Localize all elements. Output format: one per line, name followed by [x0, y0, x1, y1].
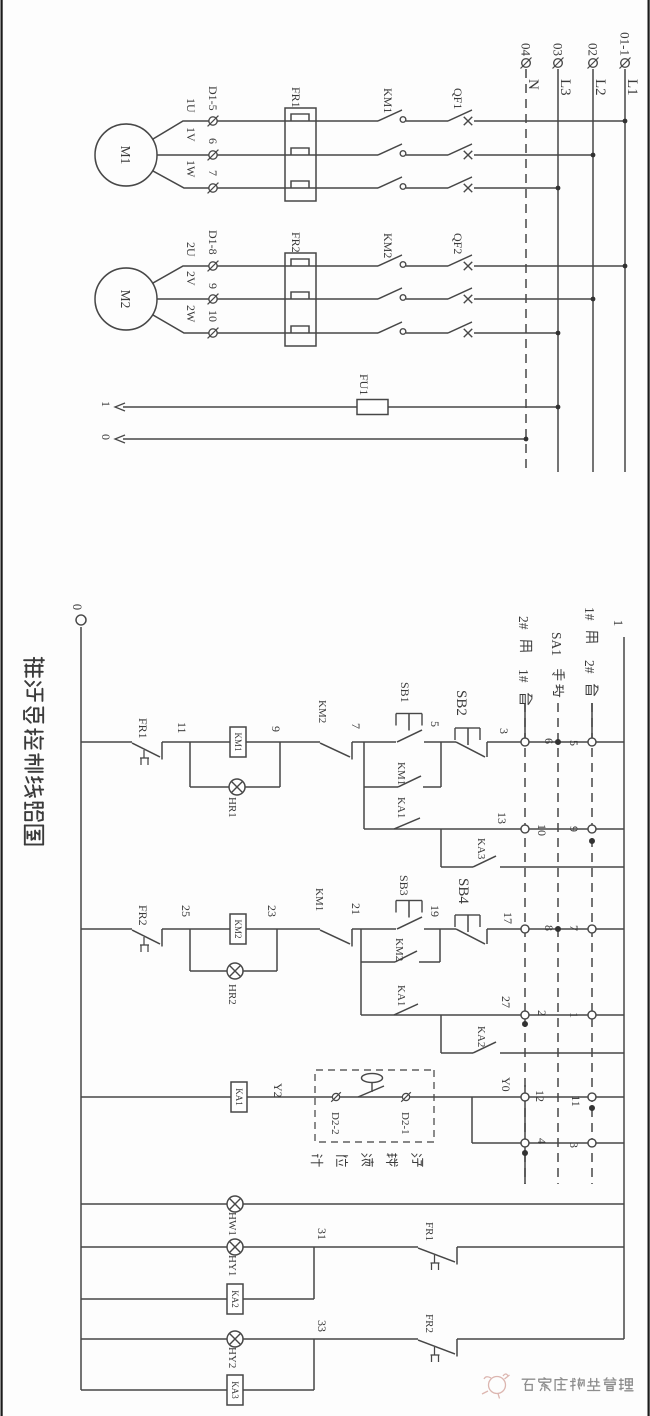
svg-text:9: 9: [269, 726, 283, 732]
svg-text:1: 1: [567, 1012, 581, 1018]
svg-text:9: 9: [206, 283, 220, 289]
bus L3: [557, 69, 559, 472]
svg-text:23: 23: [265, 905, 279, 917]
svg-text:KA2: KA2: [475, 1026, 487, 1047]
SA1 contact circle rung2 pos C: [588, 925, 596, 933]
svg-text:QF1: QF1: [451, 88, 465, 109]
svg-text:KM2: KM2: [316, 700, 328, 723]
rung 3 wire (KA1 float circuit): [81, 1096, 624, 1098]
float switch box (dashed): [315, 1070, 434, 1142]
wire 4 rung: [472, 1142, 624, 1144]
svg-text:D1-8: D1-8: [206, 230, 220, 255]
breaker QF2: [448, 259, 474, 273]
FR2 fault contact: [456, 1339, 458, 1357]
interlock KM1 NC: [351, 929, 353, 947]
svg-text:02: 02: [586, 43, 601, 56]
SA1 closed-contact dot rung1 pos B (manual): [555, 739, 561, 745]
svg-text:1#: 1#: [582, 607, 597, 621]
svg-text:03: 03: [551, 43, 566, 56]
motor terminals M1: [209, 117, 217, 125]
svg-text:2: 2: [535, 1010, 549, 1016]
svg-text:10: 10: [206, 310, 220, 322]
svg-text:2W: 2W: [184, 305, 198, 323]
float contact D2-2: [332, 1093, 339, 1100]
SA1 position line B (手动): [557, 703, 559, 1184]
SA1 closed-position dot pos A: [522, 1150, 528, 1156]
KA1 auto branch (wire 27): [361, 1014, 624, 1016]
svg-text:M2: M2: [118, 290, 133, 309]
svg-text:SB4: SB4: [455, 878, 471, 904]
svg-text:9: 9: [567, 826, 581, 832]
KA2 branch to bus 1: [440, 1015, 442, 1053]
svg-text:10: 10: [535, 824, 549, 836]
svg-text:21: 21: [349, 903, 363, 915]
watermark logo: [482, 1374, 510, 1399]
svg-text:HR2: HR2: [226, 984, 238, 1005]
rung HY1 / FR1 fault: [457, 1246, 624, 1248]
svg-text:11: 11: [175, 722, 189, 734]
svg-text:31: 31: [315, 1228, 329, 1240]
svg-text:KM1: KM1: [395, 762, 407, 785]
svg-text:33: 33: [315, 1320, 329, 1332]
SA1 contact circle wire27 pos C: [588, 1011, 596, 1019]
svg-text:27: 27: [499, 996, 513, 1008]
thermal overload FR2 heaters: [285, 253, 316, 346]
svg-text:1#: 1#: [516, 669, 531, 683]
svg-text:SB1: SB1: [398, 682, 412, 703]
stop button SB3: [397, 917, 422, 929]
SA1 contact circle rung2 pos A: [521, 925, 529, 933]
svg-text:6: 6: [542, 738, 556, 744]
svg-text:D2-1: D2-1: [399, 1112, 411, 1135]
fuse FU1 branch: [123, 406, 558, 408]
control bus 0 (bottom): [80, 627, 82, 1390]
svg-text:KM2: KM2: [381, 233, 395, 258]
rung HY2 / FR2 fault: [457, 1338, 624, 1340]
svg-text:D1-5: D1-5: [206, 86, 220, 111]
svg-text:KM1: KM1: [313, 888, 325, 911]
motor terminals M2: [209, 262, 217, 270]
svg-text:KM1: KM1: [381, 88, 395, 113]
svg-text:Y0: Y0: [499, 1077, 513, 1092]
motor M2 circle: [95, 268, 157, 330]
motor M1 lead wires: [157, 154, 209, 156]
svg-text:FR1: FR1: [423, 1222, 435, 1241]
SA1 closed-position dot pos C: [589, 838, 595, 844]
stop button SB1: [397, 730, 422, 742]
start button SB4: [486, 929, 488, 944]
contactor KM2 main contacts: [378, 259, 406, 273]
arrow line 1: [115, 403, 125, 411]
svg-text:5: 5: [428, 721, 442, 727]
KA3 branch to bus 1: [440, 829, 442, 867]
coil KA1: [231, 1082, 247, 1112]
watermark text 石家庄物业管理: [522, 1378, 633, 1391]
SA1 position line C (1#用2#备): [591, 703, 593, 1184]
SA1 closed-contact dot rung2 pos B (manual): [555, 926, 561, 932]
svg-text:3: 3: [567, 1142, 581, 1148]
svg-text:L1: L1: [624, 79, 640, 96]
svg-text:L2: L2: [592, 79, 608, 96]
rung 2 wire (KM2 circuit): [487, 928, 624, 930]
motor branch M2 phase lines: [213, 265, 625, 267]
svg-text:0: 0: [99, 434, 113, 440]
svg-text:2#: 2#: [516, 616, 531, 630]
rung KA2 coil: [81, 1298, 314, 1300]
motor branch M1 phase lines: [213, 120, 625, 122]
svg-text:8: 8: [542, 925, 556, 931]
svg-text:01-1: 01-1: [618, 32, 633, 56]
SA1 contact circle wire13 pos A: [521, 825, 529, 833]
svg-text:KA2: KA2: [230, 1290, 240, 1308]
svg-text:25: 25: [179, 905, 193, 917]
self-hold KM2 aux branch: [419, 961, 440, 963]
SA1 contact circle wire13 pos C: [588, 825, 596, 833]
svg-text:FR1: FR1: [289, 87, 303, 108]
lamp HR2 branch: [190, 970, 277, 972]
neutral branch "0": [123, 438, 526, 440]
svg-text:HW1: HW1: [226, 1212, 238, 1236]
svg-text:12: 12: [533, 1090, 547, 1102]
SA1 contact circle wire4 pos A: [521, 1139, 529, 1147]
svg-text:M1: M1: [118, 146, 133, 165]
svg-text:SB3: SB3: [397, 875, 411, 896]
svg-text:7: 7: [567, 925, 581, 931]
svg-text:1: 1: [611, 620, 626, 627]
start button SB2: [486, 742, 488, 757]
svg-text:1U: 1U: [184, 98, 198, 113]
rung HW1 lamp: [81, 1203, 624, 1205]
svg-text:11: 11: [569, 1095, 583, 1107]
svg-text:4: 4: [535, 1138, 549, 1144]
float gauge label 浮球液位计: [412, 1154, 423, 1167]
svg-text:17: 17: [501, 912, 515, 924]
control bus 1 (top): [623, 637, 625, 1339]
svg-text:1: 1: [99, 401, 113, 407]
svg-text:SA1: SA1: [549, 632, 564, 656]
KA1 auto branch (wire 13): [364, 828, 624, 830]
svg-text:HY2: HY2: [226, 1347, 238, 1368]
svg-text:FR2: FR2: [423, 1314, 435, 1333]
SA1 contact circle rung1 pos A: [521, 738, 529, 746]
svg-text:KA1: KA1: [234, 1088, 244, 1106]
SA1 closed-position dot pos A: [522, 1021, 528, 1027]
breaker QF1: [448, 114, 474, 128]
thermal contact FR1 NC: [161, 742, 163, 760]
SA1 contact circle wire4 pos C: [588, 1139, 596, 1147]
title 排污泵控制线路图: [24, 658, 44, 677]
motor M1 circle: [95, 124, 157, 186]
SA1 closed-position dot pos C: [589, 1105, 595, 1111]
bus L1: [624, 69, 626, 472]
svg-text:KA3: KA3: [230, 1381, 240, 1399]
svg-text:QF2: QF2: [451, 233, 465, 254]
svg-text:19: 19: [428, 905, 442, 917]
coil KM2: [230, 914, 246, 944]
contactor KM1 main contacts: [378, 114, 406, 128]
SA1 contact circle wireY0 pos C: [588, 1093, 596, 1101]
svg-text:D2-2: D2-2: [329, 1112, 341, 1135]
SA1 contact circle rung1 pos C: [588, 738, 596, 746]
SA1 position line A (2#用1#备): [524, 703, 526, 1184]
svg-text:6: 6: [206, 138, 220, 144]
rung KA3 coil: [81, 1389, 314, 1391]
svg-text:KM2: KM2: [393, 938, 405, 961]
svg-text:FR1: FR1: [136, 718, 150, 739]
svg-text:Y2: Y2: [271, 1083, 285, 1098]
svg-text:7: 7: [206, 170, 220, 176]
rung 1 wire (KM1 circuit): [487, 741, 624, 743]
SA1 contact circle wireY0 pos A: [521, 1093, 529, 1101]
svg-text:L3: L3: [557, 79, 573, 96]
float contact D2-1: [402, 1093, 409, 1100]
svg-text:5: 5: [567, 740, 581, 746]
svg-text:KA1: KA1: [395, 985, 407, 1006]
svg-text:2U: 2U: [184, 242, 198, 257]
svg-text:KM2: KM2: [233, 919, 243, 938]
interlock KM2 NC: [351, 742, 353, 760]
svg-text:N: N: [525, 79, 541, 90]
svg-text:HY1: HY1: [226, 1255, 238, 1276]
svg-text:2#: 2#: [582, 660, 597, 674]
svg-text:04: 04: [519, 43, 534, 57]
svg-text:KM1: KM1: [233, 732, 243, 751]
self-hold KM1 aux branch: [423, 786, 441, 788]
thermal contact FR2 NC: [161, 929, 163, 947]
svg-text:SB2: SB2: [453, 690, 469, 716]
svg-text:FR2: FR2: [289, 232, 303, 253]
svg-text:FU1: FU1: [357, 374, 371, 395]
svg-text:3: 3: [497, 728, 511, 734]
svg-text:1W: 1W: [184, 160, 198, 178]
thermal overload FR1 heaters: [285, 108, 316, 201]
motor M2 lead wires: [157, 298, 209, 300]
branch to wire 4 row: [471, 1097, 473, 1143]
SA1 contact circle wire27 pos A: [521, 1011, 529, 1019]
svg-text:KA3: KA3: [475, 838, 487, 860]
lamp HR1 branch: [190, 786, 280, 788]
svg-text:2V: 2V: [184, 271, 198, 286]
FR1 fault contact: [456, 1247, 458, 1265]
bus N: [525, 69, 527, 472]
svg-text:0: 0: [70, 604, 84, 610]
bus L2: [592, 69, 594, 472]
svg-text:13: 13: [495, 812, 509, 824]
coil KM1: [230, 727, 246, 757]
svg-text:HR1: HR1: [226, 797, 238, 818]
svg-text:FR2: FR2: [136, 905, 150, 926]
svg-text:KA1: KA1: [395, 797, 407, 818]
float blade and ball: [358, 1086, 384, 1097]
svg-text:7: 7: [349, 723, 363, 729]
svg-text:1V: 1V: [184, 127, 198, 142]
